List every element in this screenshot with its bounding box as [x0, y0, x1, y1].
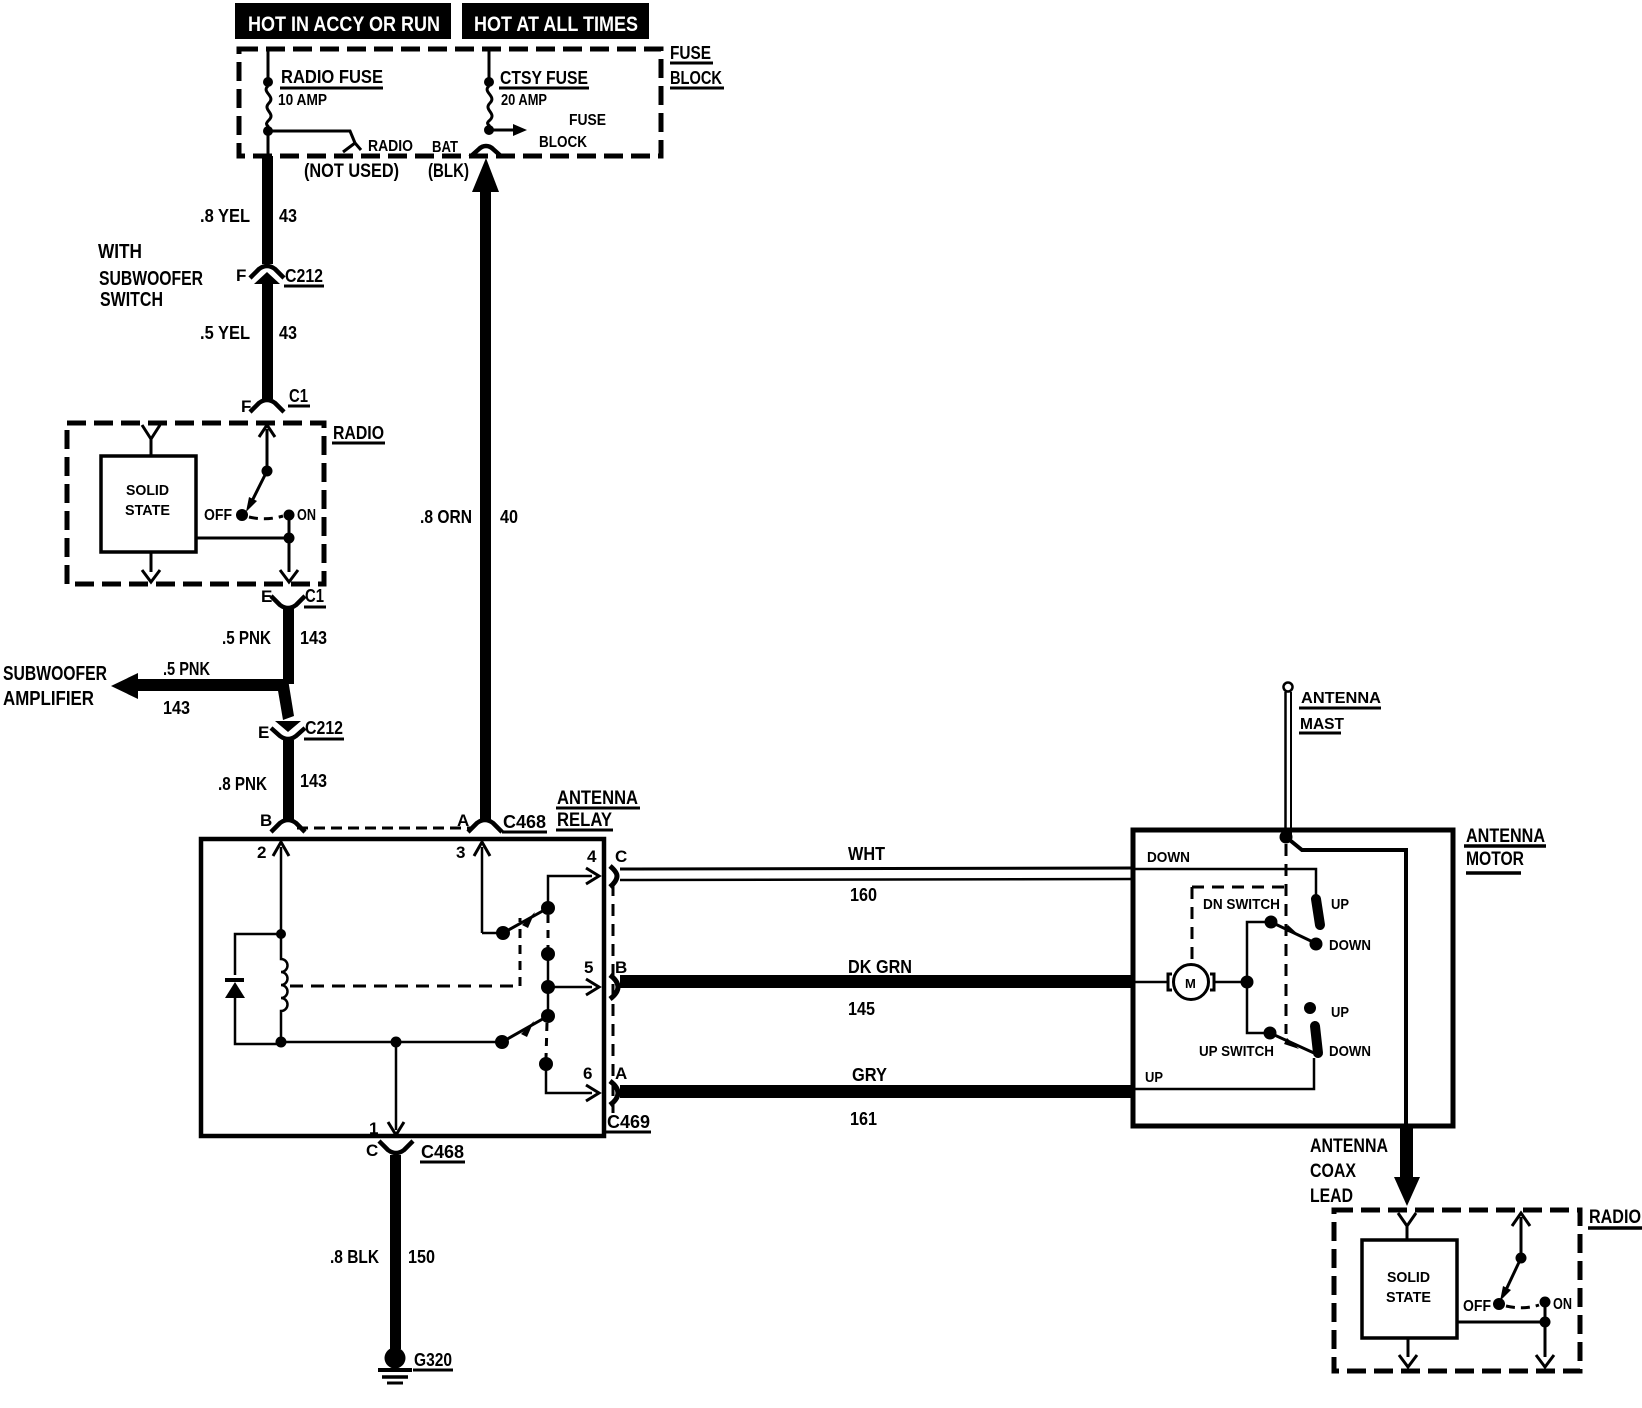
svg-text:C469: C469 [607, 1112, 650, 1132]
wire: radio fuse down to fuse block edge [267, 131, 270, 156]
pin 6 exit arrow [583, 1064, 627, 1101]
svg-text:HOT IN ACCY OR RUN: HOT IN ACCY OR RUN [248, 13, 440, 36]
wire: dn pivot to motor junction [1247, 922, 1271, 981]
wire: C1 into radio switch [259, 425, 275, 471]
svg-text:C1: C1 [305, 586, 324, 606]
wire .8 BLK 150 (thick) [390, 1155, 401, 1349]
wire .5 PNK 143 (thick) [283, 608, 294, 684]
svg-text:C468: C468 [503, 812, 546, 832]
svg-text:C1: C1 [289, 386, 308, 406]
svg-text:DOWN: DOWN [1329, 1043, 1371, 1060]
svg-text:C: C [615, 847, 627, 866]
wire: WHT inside to up contact [1135, 869, 1316, 896]
svg-text:.8 ORN: .8 ORN [420, 507, 472, 527]
wire: mast to coax line [1286, 837, 1406, 1126]
svg-text:OFF: OFF [204, 507, 232, 524]
solid state unit (radio) [101, 456, 196, 552]
node: ctsy fuse bottom [484, 125, 494, 135]
power label HOT IN ACCY OR RUN [235, 3, 451, 39]
antenna relay title [556, 788, 640, 831]
svg-text:UP: UP [1331, 896, 1349, 913]
radio boundary (top) [67, 423, 324, 584]
contact DOWN (up switch) [1315, 1026, 1371, 1060]
fuse block boundary [239, 49, 661, 156]
svg-text:M: M [1185, 976, 1196, 991]
pin 4 exit arrow [586, 847, 627, 884]
svg-text:1: 1 [369, 1119, 378, 1138]
svg-text:.8 YEL: .8 YEL [200, 206, 250, 226]
wire: lower contact to pin5 junction [547, 954, 550, 987]
node pole2 common [495, 1035, 509, 1049]
wire to pin 6 [546, 1064, 592, 1093]
node: radio fuse bottom [263, 126, 273, 136]
svg-text:SUBWOOFER: SUBWOOFER [3, 663, 107, 685]
node: switch pivot (radio) [262, 466, 273, 477]
connector B skirt [260, 811, 305, 832]
wire: feed to ctsy fuse [488, 51, 491, 79]
pole1 blade [503, 908, 548, 933]
node pole1 lower contact [541, 947, 555, 961]
svg-text:43: 43 [279, 323, 297, 343]
wire: coil top to diode branch [235, 934, 281, 975]
wire WHT 160 (hollow) [620, 844, 1134, 905]
node up switch pivot [1264, 1027, 1277, 1040]
node motor junction [1241, 976, 1254, 989]
label ANTENNA MAST [1299, 690, 1381, 733]
svg-text:.5 PNK: .5 PNK [222, 628, 271, 648]
svg-text:RADIO FUSE: RADIO FUSE [281, 67, 383, 87]
svg-text:UP SWITCH: UP SWITCH [1199, 1043, 1274, 1060]
antenna relay boundary [201, 839, 604, 1136]
svg-text:MOTOR: MOTOR [1466, 849, 1524, 870]
svg-text:UP: UP [1331, 1004, 1349, 1021]
svg-text:161: 161 [850, 1109, 877, 1129]
svg-text:SOLID: SOLID [126, 482, 169, 499]
svg-text:DK GRN: DK GRN [848, 957, 912, 977]
label ANTENNA COAX LEAD [1310, 1136, 1388, 1207]
svg-text:SUBWOOFER: SUBWOOFER [99, 268, 203, 290]
antenna mast [1284, 683, 1293, 837]
node pole2 lower contact [539, 1057, 553, 1071]
svg-text:2: 2 [257, 843, 266, 862]
radio title (bottom) [1588, 1207, 1642, 1228]
svg-text:CTSY FUSE: CTSY FUSE [500, 68, 588, 88]
svg-text:3: 3 [456, 843, 465, 862]
svg-text:ANTENNA: ANTENNA [1310, 1136, 1388, 1157]
svg-text:STATE: STATE [1386, 1289, 1431, 1306]
radio title RADIO [332, 423, 385, 443]
svg-text:150: 150 [408, 1247, 435, 1267]
pole2 blade [502, 1016, 548, 1042]
wire: junction down to exit arrow (bottom radio) [1536, 1322, 1554, 1367]
svg-text:E: E [258, 723, 269, 742]
node coil bottom [276, 1037, 287, 1048]
svg-text:RELAY: RELAY [557, 810, 612, 831]
wire to pin 5 [548, 986, 592, 989]
connector C469 dashed line [606, 884, 651, 1132]
svg-text:RADIO: RADIO [368, 138, 413, 155]
svg-text:SOLID: SOLID [1387, 1269, 1430, 1286]
svg-text:C212: C212 [285, 266, 323, 286]
svg-text:C212: C212 [305, 718, 343, 738]
pin 3 entry arrow [456, 842, 490, 933]
dashed linkage box (dn switch) [1192, 887, 1284, 963]
contact UP (up switch) [1304, 1002, 1349, 1021]
svg-text:6: 6 [583, 1064, 592, 1083]
wire .5 YEL 43 (thick) [262, 282, 273, 399]
solid state unit (bottom radio) [1362, 1240, 1457, 1338]
wire: coil bottom run to pole2 common [281, 1041, 502, 1044]
svg-text:AMPLIFIER: AMPLIFIER [3, 688, 94, 710]
svg-text:ANTENNA: ANTENNA [1466, 826, 1545, 847]
linkage dashed pole1 [547, 915, 550, 948]
contact ON (bottom radio) [1540, 1296, 1573, 1313]
node: switch pivot (bottom radio) [1516, 1253, 1527, 1264]
svg-text:143: 143 [300, 628, 327, 648]
wire .8 PNK 143 (thick) [283, 740, 294, 820]
wire: solid state to junction [196, 537, 289, 540]
svg-text:.8 BLK: .8 BLK [330, 1247, 379, 1267]
contact OFF [204, 507, 248, 524]
contact ON [284, 507, 317, 524]
connector BAT (BLK) skirt [470, 146, 502, 157]
dashed throw arc OFF-ON [249, 516, 283, 519]
wire: junction to up switch pivot [1247, 982, 1270, 1033]
node pole2 upper contact [541, 1009, 555, 1023]
wire: solid state down arrow [142, 552, 160, 582]
node pole1 common [496, 926, 510, 940]
connector F C212 [236, 266, 324, 286]
dashed throw arc OFF-ON (bottom radio) [1506, 1305, 1539, 1308]
svg-text:43: 43 [279, 206, 297, 226]
contact DOWN (dn switch) [1310, 937, 1372, 954]
svg-text:E: E [261, 587, 272, 606]
svg-text:MAST: MAST [1300, 716, 1344, 733]
fuse RADIO FUSE 10 AMP [266, 67, 383, 128]
connector F C1 skirt [241, 386, 310, 416]
svg-text:143: 143 [163, 698, 190, 718]
wire to subwoofer amplifier (thick) [111, 673, 294, 720]
wire: GRY inside to down contact [1135, 1058, 1314, 1089]
node mast base [1280, 831, 1293, 844]
diode CR (relay suppression) [225, 978, 245, 998]
edge connector skirt pin C [610, 866, 617, 887]
svg-text:LEAD: LEAD [1310, 1186, 1353, 1207]
wire: solid state down arrow (bottom radio) [1399, 1338, 1417, 1367]
node: radio fuse top [263, 77, 273, 87]
wire: diode to coil bottom run [235, 997, 281, 1044]
node pin2 / coil top [276, 929, 286, 939]
node: radio output junction [284, 533, 295, 544]
node pin5 junction [541, 980, 555, 994]
wire: pin3 to pole1 common [482, 932, 503, 935]
wire: feed to radio fuse [267, 51, 270, 79]
svg-text:ANTENNA: ANTENNA [557, 788, 638, 809]
connector E C212 [258, 718, 344, 742]
svg-text:G320: G320 [414, 1350, 452, 1370]
wire .8 YEL 43 (thick) [262, 156, 273, 264]
svg-text:145: 145 [848, 999, 875, 1019]
contact UP (dn switch) [1316, 896, 1349, 925]
svg-text:DOWN: DOWN [1147, 849, 1190, 866]
svg-text:RADIO: RADIO [1589, 1207, 1641, 1228]
svg-text:.5 YEL: .5 YEL [200, 323, 250, 343]
wire: ON down to junction (bottom radio) [1544, 1302, 1547, 1322]
svg-text:ON: ON [1553, 1296, 1572, 1313]
node: output junction (bottom radio) [1540, 1317, 1551, 1328]
interconnect dashed B to A [297, 827, 471, 830]
linkage dashed pole2 [546, 1023, 547, 1058]
edge connector skirt pin B [610, 975, 618, 999]
connector C C468 skirt [366, 1141, 465, 1162]
svg-text:STATE: STATE [125, 502, 170, 519]
label .8 PNK 143 [218, 771, 327, 794]
svg-text:(BLK): (BLK) [428, 161, 469, 182]
ground G320 [378, 1348, 453, 1384]
label .8 YEL 43 [200, 206, 297, 226]
svg-text:DOWN: DOWN [1329, 937, 1371, 954]
label SUBWOOFER AMPLIFIER [3, 663, 107, 710]
label .8 BLK 150 [330, 1247, 435, 1267]
svg-text:.8 PNK: .8 PNK [218, 774, 267, 794]
svg-text:BLOCK: BLOCK [539, 134, 587, 151]
svg-text:DN SWITCH: DN SWITCH [1203, 896, 1280, 913]
svg-text:ON: ON [297, 507, 316, 524]
svg-text:(NOT USED): (NOT USED) [304, 161, 399, 182]
antenna motor boundary [1133, 830, 1453, 1126]
svg-text:UP: UP [1145, 1069, 1163, 1086]
dn switch blade [1271, 922, 1313, 942]
wire GRY 161 (thick) [620, 1065, 1134, 1129]
coax entry arrow into radio [1398, 1213, 1416, 1240]
svg-text:A: A [615, 1064, 627, 1083]
power label HOT AT ALL TIMES [462, 3, 649, 39]
mechanical linkage dashed (coil to contacts) [290, 918, 520, 986]
svg-text:FUSE: FUSE [670, 43, 711, 63]
svg-text:F: F [236, 266, 246, 285]
wire: junction down to radio exit arrow [280, 538, 298, 582]
svg-text:ANTENNA: ANTENNA [1301, 690, 1381, 707]
svg-text:SWITCH: SWITCH [100, 289, 163, 311]
svg-text:40: 40 [500, 507, 518, 527]
svg-text:5: 5 [584, 958, 593, 977]
relay coil [281, 934, 288, 1044]
wire: pin5 junction down to pole2 contact [547, 987, 550, 1016]
svg-text:10 AMP: 10 AMP [278, 92, 327, 109]
svg-text:4: 4 [587, 847, 597, 866]
node dn switch pivot [1265, 916, 1278, 929]
svg-text:143: 143 [300, 771, 327, 791]
node pin1 branch [391, 1037, 402, 1048]
wire: solid state to junction (bottom radio) [1457, 1321, 1545, 1324]
svg-text:B: B [615, 958, 627, 977]
svg-text:FUSE: FUSE [569, 112, 606, 129]
switch blade (bottom radio) [1500, 1258, 1521, 1301]
wire: top edge arrow to switch [1512, 1213, 1530, 1258]
label .5 PNK 143 [222, 628, 327, 648]
contact OFF (bottom radio) [1463, 1298, 1505, 1315]
antenna motor title [1464, 826, 1546, 873]
svg-text:160: 160 [850, 885, 877, 905]
radio boundary (bottom) [1334, 1210, 1580, 1371]
svg-text:BLOCK: BLOCK [670, 68, 722, 88]
node pole1 upper contact [541, 901, 555, 915]
dashed mast linkage [1285, 844, 1288, 1034]
connector E C1 skirt [261, 586, 326, 608]
svg-text:OFF: OFF [1463, 1298, 1491, 1315]
fuse CTSY FUSE 20 AMP [487, 68, 589, 127]
wire DK GRN 145 (thick) [620, 957, 1134, 1019]
svg-text:RADIO: RADIO [333, 423, 384, 443]
svg-text:B: B [260, 811, 272, 830]
svg-text:WHT: WHT [848, 844, 885, 864]
wire: pole1 contact to pin 4 [548, 876, 592, 908]
up switch blade [1270, 1033, 1314, 1053]
svg-text:GRY: GRY [852, 1065, 887, 1085]
label WITH SUBWOOFER SWITCH [98, 241, 203, 311]
motor M [1135, 965, 1247, 1000]
pin 2 entry arrow [257, 842, 289, 933]
svg-text:A: A [457, 811, 469, 830]
node: ctsy fuse top [484, 77, 494, 87]
pin 5 exit arrow [584, 958, 627, 995]
switch blade (radio on/off) [246, 471, 267, 512]
svg-text:BAT: BAT [432, 139, 458, 156]
connector A C468 skirt [457, 811, 547, 832]
wire .8 ORN 40 (thick) [472, 158, 499, 820]
fuse block title FUSE BLOCK [670, 43, 724, 88]
label .8 ORN 40 [420, 507, 518, 527]
svg-text:C: C [366, 1141, 378, 1160]
wire: ctsy fuse to fuse block arrow [489, 124, 527, 136]
wire: radio fuse to unused RADIO terminal [268, 131, 413, 155]
svg-text:C468: C468 [421, 1142, 464, 1162]
svg-text:20 AMP: 20 AMP [501, 92, 547, 109]
antenna lead-in arrow into radio [142, 425, 160, 456]
label .5 YEL 43 [200, 323, 297, 343]
edge connector skirt pin A [610, 1081, 618, 1105]
svg-text:.5 PNK: .5 PNK [163, 659, 210, 679]
svg-text:WITH: WITH [98, 241, 142, 263]
pin 1 exit arrow [369, 1042, 404, 1138]
wire antenna coax lead (thick) [1394, 1126, 1420, 1206]
wire: ON down to junction [288, 515, 291, 538]
svg-text:HOT AT ALL TIMES: HOT AT ALL TIMES [474, 13, 638, 36]
svg-text:COAX: COAX [1310, 1161, 1356, 1182]
svg-text:F: F [241, 397, 251, 416]
